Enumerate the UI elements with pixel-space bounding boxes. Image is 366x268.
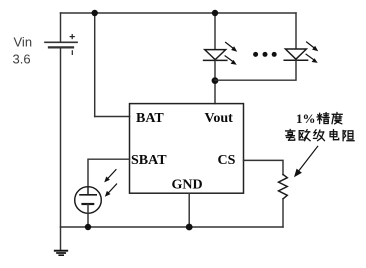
annotation glyph du (degree) — [332, 113, 342, 124]
battery V1 plates — [45, 42, 77, 47]
svg-text:SBAT: SBAT — [131, 153, 167, 168]
ground — [55, 251, 67, 256]
wire photocell to ground rail — [87, 204, 89, 227]
svg-text:Vin: Vin — [14, 34, 33, 49]
svg-text:BAT: BAT — [136, 111, 164, 126]
pin label Vout — [205, 111, 234, 126]
annotation glyph zu (resist) — [343, 131, 354, 141]
wire LED1 cathode to Vout — [214, 60, 216, 103]
pin label GND — [172, 178, 203, 193]
annotation glyph ji (grade) — [314, 130, 325, 141]
svg-text:1%: 1% — [296, 111, 316, 126]
node GND junction — [186, 224, 193, 231]
annotation glyph hao (milli) — [286, 130, 295, 141]
wire SBAT stub — [88, 159, 130, 187]
LED D1 — [204, 50, 227, 61]
annotation glyph ou (ohm) — [299, 130, 310, 141]
LED D1 light arrows — [225, 42, 237, 64]
annotation arrow to resistor — [294, 146, 318, 177]
wire LED2 anode drop — [295, 13, 297, 49]
wire resistor to bottom rail — [282, 199, 284, 227]
photocell light arrows — [104, 170, 116, 197]
svg-text:3.6: 3.6 — [13, 51, 31, 66]
IC U1 body — [130, 104, 244, 194]
battery plus sign — [70, 35, 74, 39]
annotation text 1% — [296, 111, 316, 126]
annotation glyph dian (electric) — [330, 130, 339, 140]
wire LED1 anode drop — [214, 13, 216, 50]
LED D2 — [284, 49, 307, 60]
node photocell junction — [85, 224, 91, 230]
svg-text:Vout: Vout — [205, 111, 234, 126]
label Vin — [14, 34, 33, 49]
pin label CS — [218, 153, 236, 168]
wire BAT branch vertical — [94, 13, 96, 117]
wire bottom rail — [61, 226, 284, 228]
label 3.6 — [13, 51, 31, 66]
ellipsis more LEDs — [253, 52, 277, 57]
wire GND pin drop — [188, 193, 190, 227]
node top junction A — [92, 10, 98, 16]
svg-text:GND: GND — [172, 178, 203, 193]
node LED return junction — [212, 77, 219, 84]
wire BAT stub — [95, 116, 130, 118]
wire CS stub — [244, 160, 284, 174]
wire battery to ground — [60, 47, 62, 250]
wire top rail — [61, 12, 297, 14]
annotation glyph jing (precision) — [317, 113, 329, 124]
pin label SBAT — [131, 153, 167, 168]
resistor R1 zigzag — [279, 175, 288, 199]
pin label BAT — [136, 111, 164, 126]
node top junction B — [212, 10, 218, 16]
LED D2 light arrows — [306, 42, 318, 63]
svg-text:CS: CS — [218, 153, 236, 168]
wire LED2 cathode return — [215, 60, 296, 80]
battery minus tick — [71, 51, 73, 55]
photocell D3 — [75, 187, 102, 214]
wire battery top segment — [60, 13, 62, 42]
